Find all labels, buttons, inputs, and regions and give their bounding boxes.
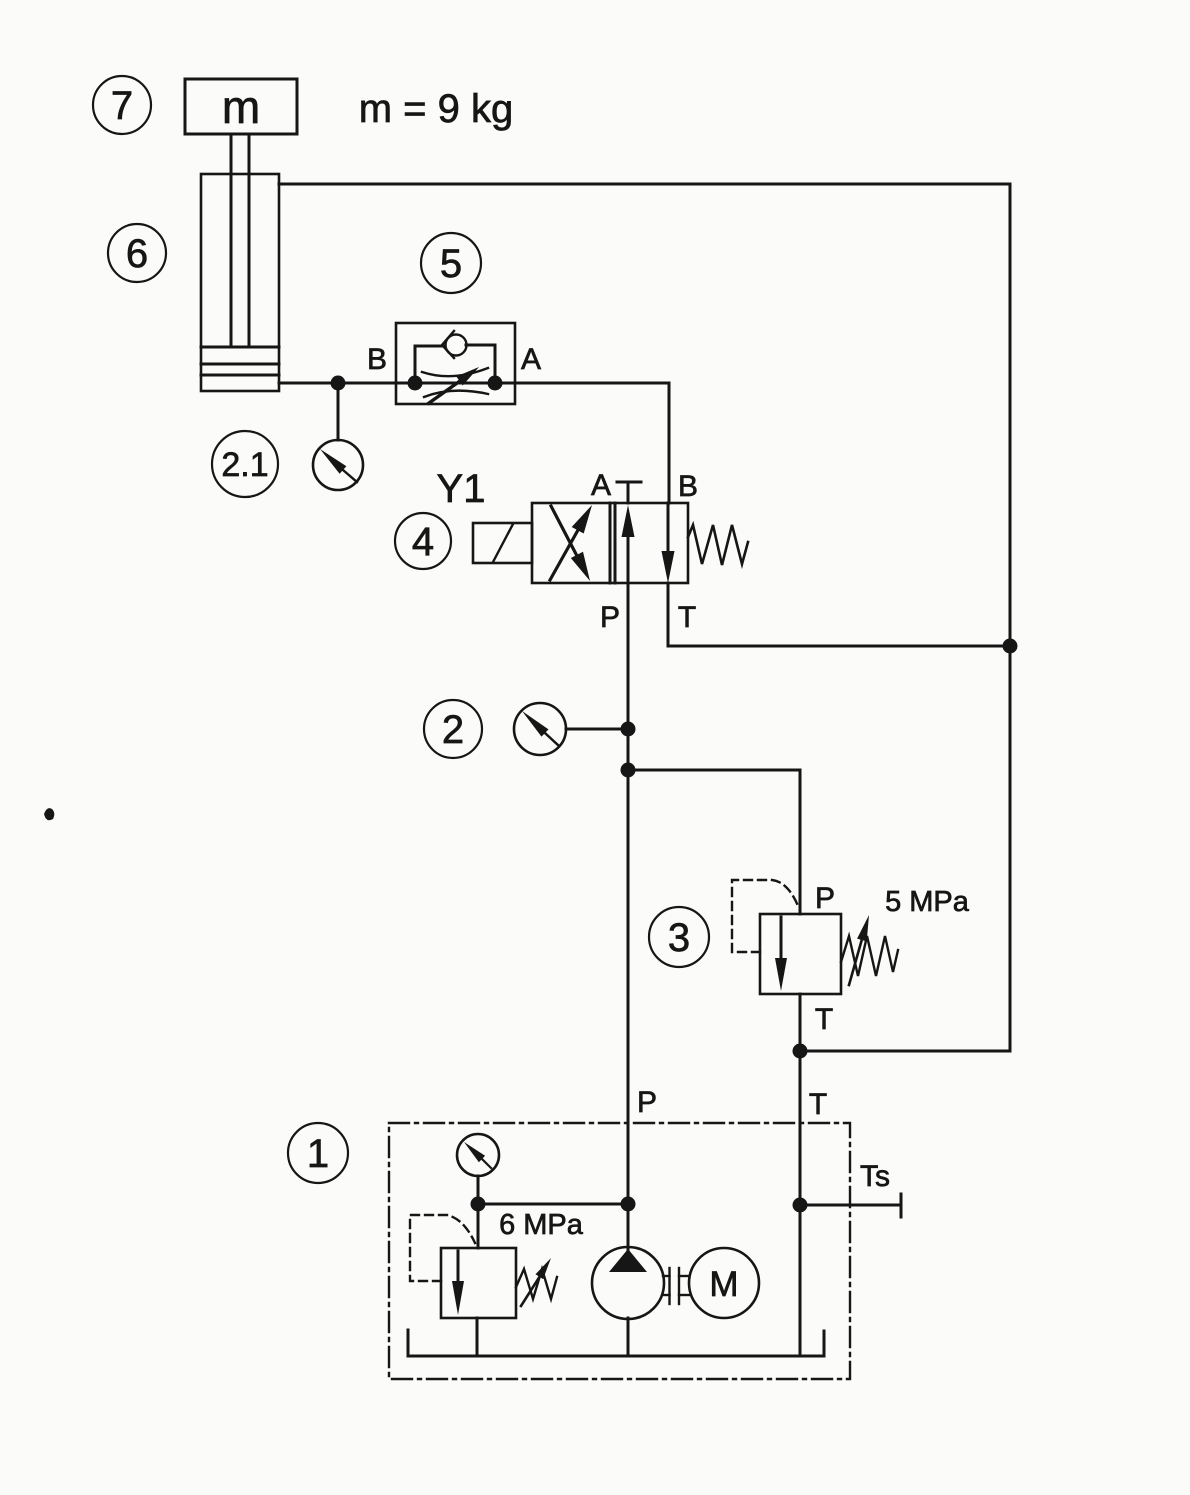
wire gauge 2 to P line (566, 728, 628, 731)
check valve seat (442, 331, 454, 358)
node P junction (power unit) (621, 1197, 636, 1212)
wire P line from valve 4 down to pump (627, 583, 630, 1251)
svg-text:4: 4 (412, 520, 434, 564)
shaft coupling (663, 1268, 689, 1304)
relief valve 6 MPa (410, 1215, 557, 1318)
balloon 4 (395, 513, 451, 569)
node junction at gauge 2.1 (331, 376, 346, 391)
balloon 7 (93, 76, 151, 134)
port node B (408, 376, 423, 391)
directional valve 4 body (532, 503, 688, 583)
balloon 2 (424, 700, 482, 758)
svg-text:B: B (678, 470, 698, 503)
straight arrow P-A (627, 533, 630, 583)
pump (592, 1247, 664, 1319)
port A blanked plug (617, 482, 641, 503)
balloon 1 (288, 1123, 348, 1183)
flow control valve 5 with bypass check (396, 323, 515, 404)
motor M (689, 1248, 759, 1318)
svg-text:T: T (815, 1003, 833, 1036)
node T junction (power unit) (793, 1198, 808, 1213)
svg-text:1: 1 (307, 1132, 329, 1176)
wire to Ts port (800, 1204, 901, 1207)
svg-text:7: 7 (111, 84, 133, 128)
svg-text:T: T (678, 601, 696, 634)
spring valve 3 (841, 936, 898, 976)
wire relief 1 drain to tank (476, 1318, 479, 1356)
wire gauge 1 to relief valve (477, 1176, 480, 1248)
wire valve 4 T to right vertical (667, 583, 670, 646)
crossed arrow A-T (550, 530, 578, 580)
relief valve 3 (732, 880, 898, 994)
svg-text:6 MPa: 6 MPa (499, 1209, 584, 1241)
wire branch to valve 3 P (628, 769, 800, 772)
node branch to valve 3 (621, 763, 636, 778)
gauge 1 (power unit) (457, 1134, 499, 1176)
wire cylinder piston side to valve 4 port B (279, 382, 669, 385)
solenoid Y1 (473, 523, 532, 563)
valve 4 return spring (688, 525, 748, 565)
wire pump to tank (627, 1318, 630, 1356)
svg-text:A: A (521, 343, 541, 376)
balloon 3 (649, 907, 709, 967)
node T junction on right vertical (1003, 639, 1018, 654)
crossed arrow P-B (551, 506, 577, 556)
check valve ball (446, 335, 467, 356)
wire cylinder rod side to right vertical (279, 183, 1010, 186)
svg-text:6: 6 (126, 232, 148, 276)
adjust arrow relief 1 (521, 1276, 540, 1306)
svg-text:M: M (709, 1265, 738, 1304)
svg-text:P: P (637, 1086, 657, 1119)
cylinder 6 (201, 134, 279, 391)
straight arrow B-T (667, 503, 670, 553)
pilot line valve 3 (732, 880, 798, 952)
check valve loop wire (414, 346, 417, 383)
wire right vertical (1009, 184, 1012, 1051)
tank line (408, 1330, 824, 1356)
svg-text:m = 9 kg: m = 9 kg (359, 87, 514, 131)
node gauge line junction (471, 1197, 486, 1212)
svg-text:P: P (815, 882, 835, 915)
pilot line relief 1 (410, 1215, 475, 1281)
svg-text:Y1: Y1 (437, 467, 486, 511)
gauge 2 (514, 703, 566, 755)
scan speckle (44, 808, 54, 820)
wire valve 3 T down to tank (799, 994, 802, 1356)
svg-text:2: 2 (442, 708, 464, 752)
gauge 2.1 (313, 440, 363, 490)
svg-text:5: 5 (440, 242, 462, 286)
throttle arcs (422, 368, 488, 376)
svg-text:m: m (222, 81, 260, 133)
balloon 2.1 (212, 431, 278, 497)
wire gauge junction to P line (478, 1203, 628, 1206)
wire T collector to right vertical (800, 1050, 1010, 1053)
node gauge 2 junction (621, 722, 636, 737)
svg-text:A: A (591, 469, 611, 502)
svg-text:5 MPa: 5 MPa (885, 886, 970, 918)
svg-text:Ts: Ts (860, 1160, 890, 1193)
svg-text:P: P (600, 601, 620, 634)
node T collector (793, 1044, 808, 1059)
wire to gauge 2.1 (337, 383, 340, 440)
mass m (185, 79, 297, 134)
spring relief 1 (516, 1269, 557, 1299)
power unit 1 enclosure (389, 1123, 850, 1379)
balloon 5 (421, 233, 481, 293)
svg-text:3: 3 (668, 916, 690, 960)
svg-text:2.1: 2.1 (221, 446, 268, 484)
svg-text:T: T (809, 1088, 827, 1121)
throttle adjust arrow (429, 381, 460, 403)
svg-text:B: B (367, 343, 387, 376)
port node A (488, 376, 503, 391)
adjust arrow valve 3 (849, 939, 862, 985)
balloon 6 (108, 224, 166, 282)
